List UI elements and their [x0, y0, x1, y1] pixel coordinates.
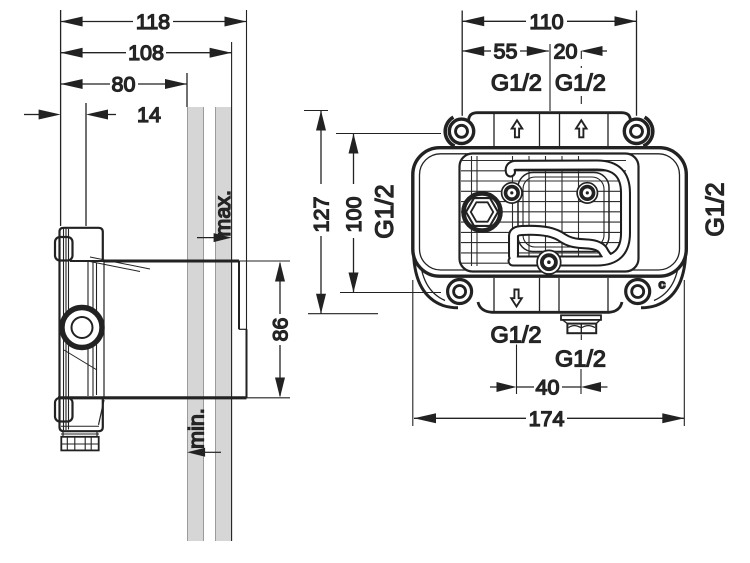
svg-text:G1/2: G1/2	[702, 182, 730, 236]
svg-text:40: 40	[536, 376, 560, 400]
svg-text:100: 100	[342, 197, 366, 233]
svg-text:110: 110	[529, 10, 563, 34]
svg-text:min.: min.	[185, 408, 209, 449]
svg-text:127: 127	[310, 197, 334, 233]
svg-text:G1/2: G1/2	[491, 70, 542, 96]
svg-text:55: 55	[494, 40, 518, 64]
svg-text:20: 20	[554, 40, 578, 64]
svg-text:G1/2: G1/2	[491, 322, 542, 348]
svg-text:G1/2: G1/2	[371, 184, 399, 238]
svg-text:80: 80	[112, 73, 136, 97]
svg-text:G1/2: G1/2	[555, 70, 606, 96]
svg-text:108: 108	[128, 41, 164, 65]
svg-text:86: 86	[269, 318, 293, 342]
svg-text:174: 174	[529, 407, 565, 431]
svg-text:max.: max.	[211, 190, 235, 237]
svg-text:G1/2: G1/2	[555, 346, 606, 372]
svg-text:c: c	[658, 277, 665, 292]
svg-text:14: 14	[137, 103, 161, 127]
svg-text:118: 118	[136, 10, 170, 34]
